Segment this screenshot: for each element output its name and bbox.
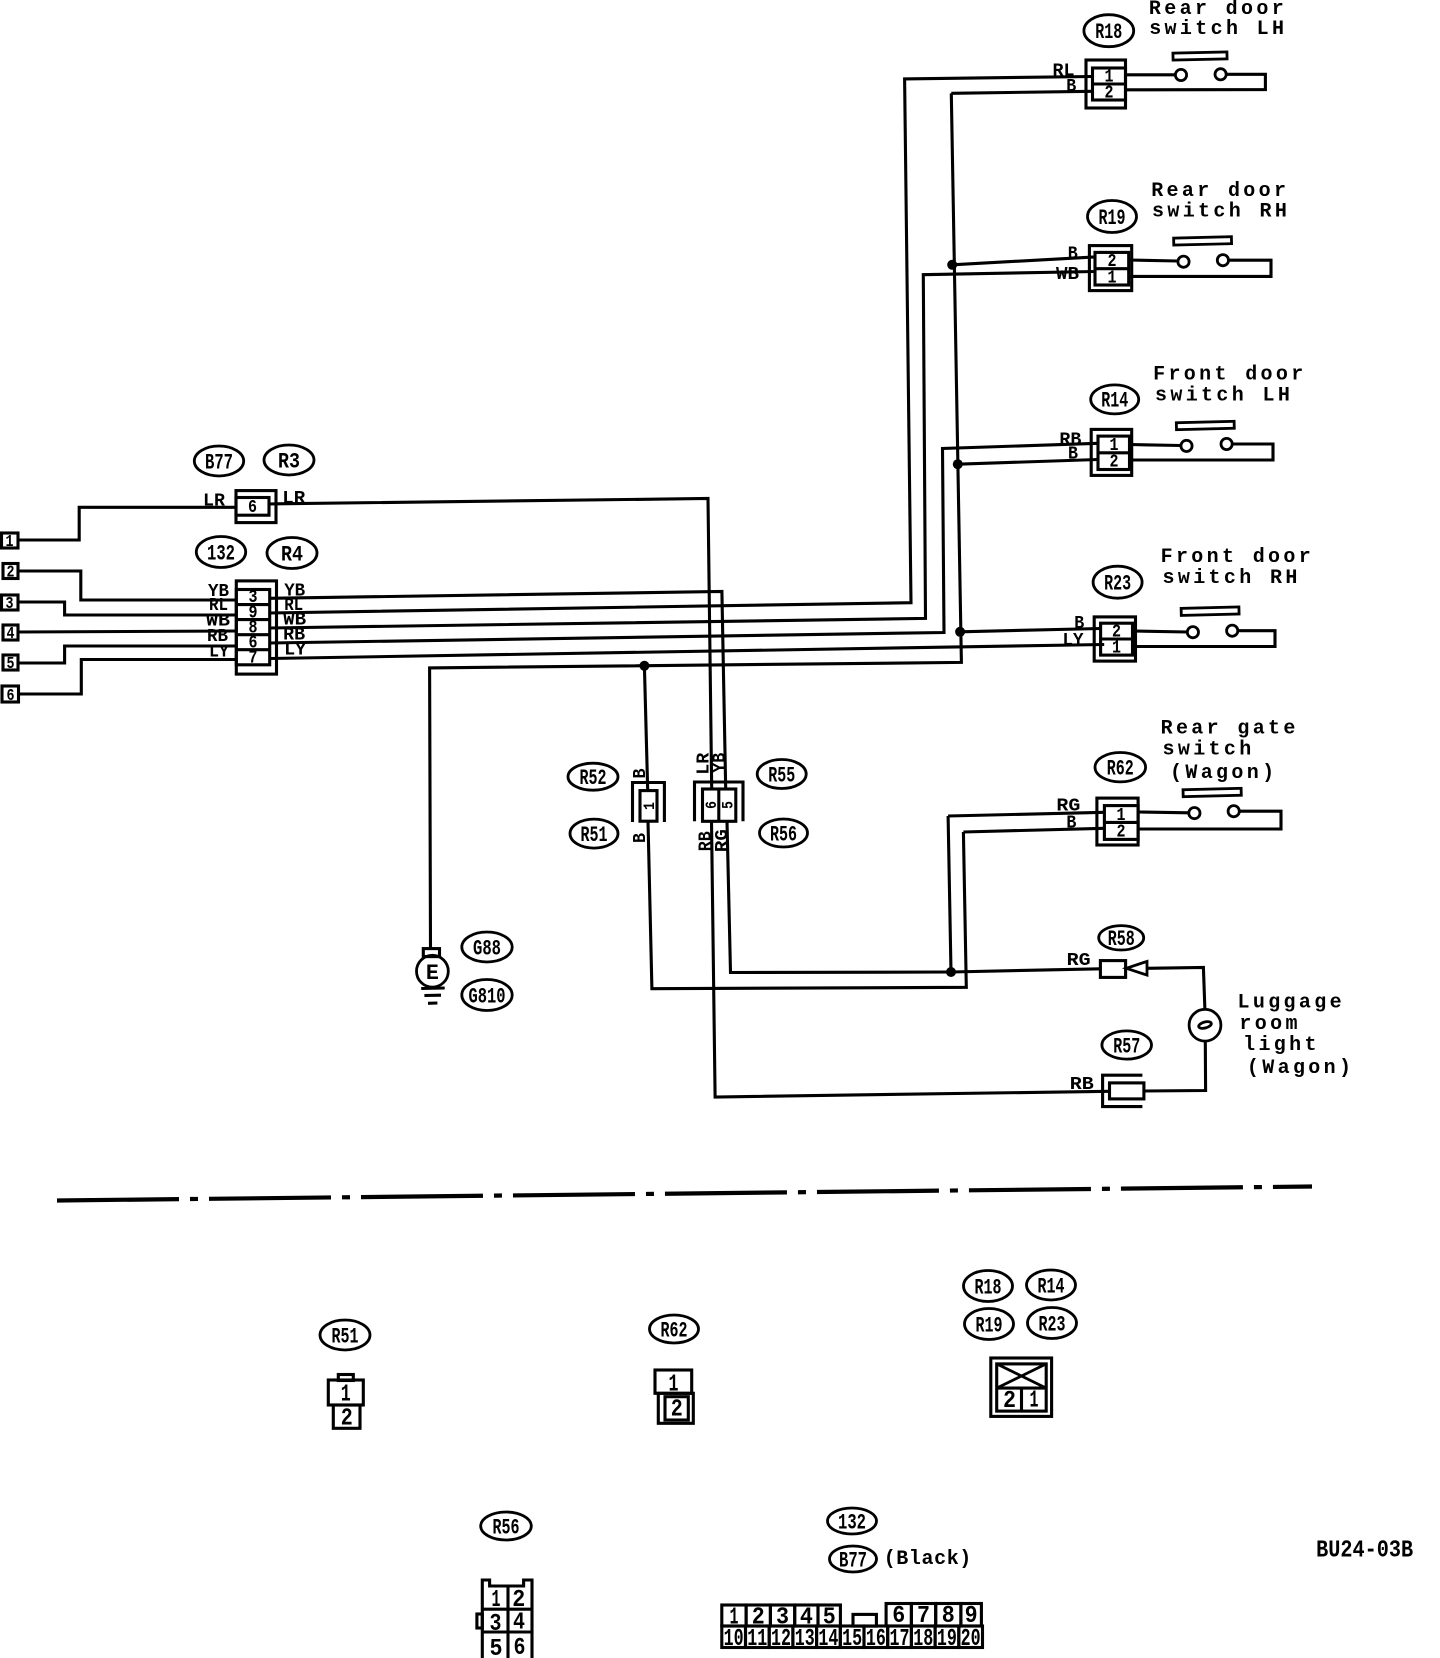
R56 view pin 3 <box>490 1611 502 1638</box>
svg-text:R56: R56 <box>770 822 797 847</box>
svg-text:LR: LR <box>282 489 305 509</box>
switch R62 contacts <box>1138 806 1281 829</box>
svg-text:6: 6 <box>248 498 257 518</box>
wire terminal2 to YB <box>18 571 236 600</box>
R14 pin 2 <box>1110 453 1119 473</box>
luggage room light bulb <box>1189 1009 1221 1041</box>
R62 pin 1 <box>1117 806 1126 826</box>
svg-text:5: 5 <box>720 801 738 809</box>
svg-text:room: room <box>1239 1013 1300 1036</box>
wire terminal3 to RL <box>18 602 236 615</box>
label WB right <box>283 611 306 631</box>
label LR left <box>203 492 225 512</box>
svg-text:light: light <box>1243 1034 1320 1057</box>
connector R18 oval <box>1084 15 1134 47</box>
svg-text:R23: R23 <box>1104 572 1131 597</box>
svg-text:R52: R52 <box>580 766 607 791</box>
pin 13 <box>795 1626 815 1653</box>
label B <box>1068 445 1078 465</box>
svg-text:6: 6 <box>514 1635 526 1658</box>
connector B77 oval bottom <box>830 1546 877 1573</box>
svg-text:LY: LY <box>209 643 229 663</box>
wire terminal4 to WB <box>18 631 236 632</box>
wire RB down to R57 <box>712 821 1110 1097</box>
pin 5 <box>823 1605 836 1632</box>
R56 view pin 1 <box>492 1587 501 1614</box>
pin 7 <box>917 1603 930 1630</box>
pin 19 <box>937 1626 957 1653</box>
svg-text:R18: R18 <box>1095 20 1122 45</box>
svg-text:WB: WB <box>1056 265 1079 285</box>
label LY right <box>284 641 306 661</box>
svg-text:6: 6 <box>7 687 15 706</box>
svg-text:3: 3 <box>6 595 14 614</box>
wire B gate drop <box>648 821 966 989</box>
R23 pin 2 <box>1112 622 1121 642</box>
pin 10 <box>724 1626 744 1653</box>
connector 132/B77 pinout view <box>722 1604 983 1648</box>
connector R62 oval bottom <box>650 1315 699 1343</box>
connector 132/R4 body <box>236 581 276 674</box>
svg-text:13: 13 <box>795 1626 815 1653</box>
wire LR run <box>269 499 712 790</box>
pin 15 <box>842 1626 862 1653</box>
wire terminal6 to LY <box>19 660 237 695</box>
svg-text:R19: R19 <box>1099 206 1126 231</box>
switch R23 connector body <box>1094 617 1135 661</box>
label LY <box>1063 631 1084 651</box>
svg-text:B77: B77 <box>205 450 233 475</box>
R51 view pin 2 <box>341 1406 353 1433</box>
svg-text:7: 7 <box>249 648 258 668</box>
pin 1 <box>730 1605 739 1632</box>
connector R51 oval bottom <box>320 1320 370 1350</box>
rear door switch RH label <box>1151 180 1290 224</box>
label B <box>1066 814 1076 834</box>
svg-text:R58: R58 <box>1108 927 1135 952</box>
svg-text:R51: R51 <box>581 823 608 848</box>
svg-text:(Wagon): (Wagon) <box>1247 1057 1354 1080</box>
svg-text:(Black): (Black) <box>884 1548 972 1571</box>
connector B77 oval <box>194 446 243 476</box>
pin 2 <box>752 1605 765 1632</box>
label WB <box>1056 265 1079 285</box>
luggage room light label <box>1238 992 1355 1081</box>
svg-text:Rear gate: Rear gate <box>1161 718 1299 741</box>
wire RB run <box>270 443 1098 643</box>
wire terminal5 to RB <box>18 646 236 663</box>
svg-text:B: B <box>631 833 651 843</box>
wire B to R19 <box>952 257 1095 265</box>
label BU24-03B <box>1316 1538 1413 1565</box>
R18 pin 2 <box>1105 84 1114 104</box>
label RG at R58 <box>1067 951 1091 971</box>
svg-text:10: 10 <box>724 1626 744 1653</box>
junction B at R52 drop <box>639 661 649 671</box>
svg-text:Front door: Front door <box>1161 546 1315 569</box>
svg-text:1: 1 <box>341 1382 351 1409</box>
svg-text:switch RH: switch RH <box>1163 567 1301 590</box>
switch R19 actuator bar <box>1174 237 1232 245</box>
svg-text:LY: LY <box>1063 631 1084 651</box>
label RL <box>1053 62 1075 82</box>
R19 pin 1 <box>1108 268 1117 288</box>
wire B bus <box>430 93 962 948</box>
svg-text:R18: R18 <box>975 1275 1002 1300</box>
svg-text:G810: G810 <box>469 984 506 1009</box>
svg-text:6: 6 <box>703 801 721 809</box>
connector R62 pinout view <box>655 1370 693 1423</box>
svg-text:4: 4 <box>7 625 15 644</box>
junction B bus at R23 <box>955 627 965 637</box>
wire B to R23 <box>960 629 1101 632</box>
R62 view pin 1 <box>669 1372 679 1399</box>
svg-text:RB: RB <box>1070 1075 1094 1095</box>
label YB left <box>208 582 229 602</box>
connector R23 oval <box>1093 566 1142 598</box>
svg-text:132: 132 <box>838 1510 866 1535</box>
pin 8 <box>942 1603 955 1630</box>
door switch view pin 2 <box>1003 1388 1016 1415</box>
svg-text:switch LH: switch LH <box>1155 385 1293 408</box>
svg-text:R14: R14 <box>1038 1274 1065 1299</box>
svg-text:19: 19 <box>937 1626 957 1653</box>
R55 pin 5 <box>720 801 738 809</box>
switch R62 connector body <box>1097 798 1138 845</box>
switch R62 actuator bar <box>1183 788 1241 796</box>
connector R56 oval bottom <box>481 1512 532 1540</box>
R56 view pin 2 <box>512 1587 525 1614</box>
wire junction to R58 <box>951 969 1100 972</box>
terminal 3 <box>2 595 19 614</box>
label RB right <box>283 626 305 646</box>
svg-text:14: 14 <box>818 1626 838 1653</box>
switch R18 actuator bar <box>1173 52 1227 60</box>
svg-text:12: 12 <box>771 1626 791 1653</box>
svg-text:3: 3 <box>490 1611 502 1638</box>
ground G88 oval <box>462 932 512 962</box>
R14 pin 1 <box>1110 436 1119 456</box>
svg-text:switch LH: switch LH <box>1149 18 1287 41</box>
svg-text:R3: R3 <box>278 449 300 474</box>
terminal 1 <box>2 533 19 552</box>
svg-text:132: 132 <box>207 541 235 566</box>
label RB left <box>207 627 228 647</box>
wire lamp to R57 <box>1144 1041 1206 1091</box>
connector R52 oval <box>568 763 618 791</box>
rear door switch LH label <box>1149 0 1287 41</box>
connector R14 oval <box>1091 385 1139 414</box>
R23 pin 1 <box>1112 639 1121 659</box>
connector R55/R56 body <box>695 782 744 821</box>
svg-text:Rear door: Rear door <box>1151 180 1289 203</box>
connector R4 oval <box>267 538 317 569</box>
front door switch RH label <box>1161 546 1315 590</box>
svg-text:2: 2 <box>1110 453 1119 473</box>
svg-text:LR: LR <box>203 492 225 512</box>
switch R23 contacts <box>1133 625 1276 646</box>
pin 9 <box>249 603 258 623</box>
wire RG drop <box>948 816 951 972</box>
wire RL run <box>270 77 1093 614</box>
svg-text:B: B <box>631 768 651 778</box>
svg-text:R19: R19 <box>976 1313 1003 1338</box>
switch R14 contacts <box>1130 438 1274 460</box>
svg-text:B77: B77 <box>839 1548 867 1573</box>
svg-text:4: 4 <box>513 1610 525 1637</box>
wire YB run <box>270 592 726 790</box>
pin 7 <box>249 648 258 668</box>
svg-text:2: 2 <box>1117 823 1126 843</box>
svg-text:Luggage: Luggage <box>1238 992 1345 1015</box>
svg-text:20: 20 <box>961 1626 981 1653</box>
wire B to R62 <box>963 828 1104 832</box>
label B below R52 <box>631 833 651 843</box>
terminal 2 <box>3 564 18 583</box>
switch R18 connector body <box>1086 60 1126 108</box>
connector R51 pinout view <box>328 1375 363 1429</box>
connector 132 oval <box>196 537 245 568</box>
svg-text:R51: R51 <box>332 1324 359 1349</box>
label RG below <box>713 829 733 852</box>
svg-text:1: 1 <box>669 1372 679 1399</box>
label RL right <box>284 596 303 616</box>
pin 17 <box>890 1626 910 1653</box>
label WB left <box>206 612 230 632</box>
junction RG at R58 <box>946 967 956 977</box>
switch R23 actuator bar <box>1181 607 1239 615</box>
R62 pin 2 <box>1117 823 1126 843</box>
svg-text:1: 1 <box>1108 268 1117 288</box>
wire R58 to lamp <box>1147 968 1205 1010</box>
svg-text:RG: RG <box>1067 951 1091 971</box>
switch R14 connector body <box>1091 429 1132 475</box>
wire B to R14 <box>958 460 1098 465</box>
R55 pin 6 <box>703 801 721 809</box>
connector R14 oval bottom <box>1027 1270 1076 1300</box>
svg-text:B: B <box>1068 245 1078 265</box>
connector R57 oval <box>1102 1031 1152 1059</box>
R62 view pin 2 <box>671 1397 683 1424</box>
pin 6 <box>892 1603 905 1630</box>
connector R55 oval <box>757 760 806 789</box>
label YB above <box>710 753 730 773</box>
svg-text:2: 2 <box>671 1397 683 1424</box>
label B above R52 <box>631 768 651 778</box>
connector R58 oval <box>1099 926 1144 953</box>
connector R19 oval <box>1088 201 1137 233</box>
svg-text:R23: R23 <box>1039 1312 1066 1337</box>
svg-text:switch: switch <box>1163 739 1255 762</box>
R19 pin 2 <box>1108 252 1117 272</box>
label RL left <box>209 596 228 616</box>
svg-text:15: 15 <box>842 1626 862 1653</box>
pin 11 <box>747 1626 767 1653</box>
terminal 6 <box>2 686 19 706</box>
label LR right <box>282 489 305 509</box>
pin 12 <box>771 1626 791 1653</box>
R52 pin 1 <box>641 802 659 810</box>
connector R23 oval bottom <box>1028 1308 1077 1339</box>
svg-text:BU24-03B: BU24-03B <box>1316 1538 1413 1565</box>
connector R58 inline <box>1100 961 1147 978</box>
label RB below <box>697 831 717 851</box>
label B <box>1074 614 1084 634</box>
label YB right <box>284 582 305 602</box>
R56 view pin 4 <box>513 1610 525 1637</box>
switch R19 connector body <box>1089 246 1131 291</box>
junction B bus at R19 <box>947 260 957 270</box>
svg-text:1: 1 <box>1112 639 1121 659</box>
connector B77/R3 pin 6 <box>236 491 276 523</box>
wire RG down to junction <box>727 821 951 972</box>
pin 8 <box>249 618 258 638</box>
separator dash-dot line <box>57 1187 1312 1201</box>
switch R14 actuator bar <box>1176 421 1234 429</box>
label LY left <box>209 643 229 663</box>
door switch view pin 1 <box>1030 1388 1039 1415</box>
connector R19 oval bottom <box>965 1309 1014 1340</box>
svg-text:G88: G88 <box>473 936 501 961</box>
rear gate switch label <box>1161 718 1299 786</box>
pin 20 <box>961 1626 981 1653</box>
svg-text:18: 18 <box>913 1626 933 1653</box>
svg-text:2: 2 <box>341 1406 353 1433</box>
wire B drop to R52 <box>644 666 647 791</box>
svg-text:1: 1 <box>641 802 659 810</box>
svg-text:R62: R62 <box>661 1318 688 1343</box>
svg-text:YB: YB <box>710 753 730 773</box>
svg-text:R57: R57 <box>1113 1034 1140 1059</box>
label (Black) <box>884 1548 972 1571</box>
pin 9 <box>965 1603 978 1630</box>
R56 view pin 6 <box>514 1635 526 1658</box>
svg-text:1: 1 <box>492 1587 501 1614</box>
svg-text:1: 1 <box>1030 1388 1039 1415</box>
svg-text:11: 11 <box>747 1626 767 1653</box>
svg-text:R4: R4 <box>281 542 303 567</box>
connector R56 pinout view <box>477 1580 532 1658</box>
switch R18 contacts <box>1126 69 1266 90</box>
pin 4 <box>800 1605 813 1632</box>
pin 6 <box>249 633 258 653</box>
ground G810 oval <box>462 980 512 1011</box>
label B <box>1066 77 1076 97</box>
R51 view pin 1 <box>341 1382 351 1409</box>
wire LY run <box>270 645 1104 659</box>
label RB <box>1059 431 1081 451</box>
svg-text:2: 2 <box>1003 1388 1016 1415</box>
pin 14 <box>818 1626 838 1653</box>
label B <box>1068 245 1078 265</box>
terminal 4 <box>3 625 18 644</box>
svg-text:2: 2 <box>1105 84 1114 104</box>
svg-text:R62: R62 <box>1107 757 1134 782</box>
svg-text:16: 16 <box>866 1626 886 1653</box>
wire B to R18 <box>951 91 1092 93</box>
svg-text:B: B <box>1066 77 1076 97</box>
wire RG to R62 <box>948 812 1104 816</box>
svg-text:(Wagon): (Wagon) <box>1170 762 1277 785</box>
label LR above <box>695 753 715 775</box>
front door switch LH label <box>1153 364 1307 408</box>
pin 16 <box>866 1626 886 1653</box>
door switch connector pinout view <box>991 1358 1052 1416</box>
svg-text:R56: R56 <box>493 1515 520 1540</box>
terminal 5 <box>3 655 18 674</box>
svg-text:2: 2 <box>7 564 15 583</box>
connector R18 oval bottom <box>964 1271 1013 1302</box>
R18 pin 1 <box>1105 68 1114 88</box>
connector R3 oval <box>264 445 314 475</box>
ground E symbol <box>417 949 449 1004</box>
connector R51 oval <box>570 819 618 848</box>
connector R52/R51 body <box>633 783 665 823</box>
pin 3 <box>249 588 258 608</box>
wire terminal1 to LR <box>18 507 236 540</box>
connector R56 oval <box>760 819 808 847</box>
connector R57 inline <box>1103 1075 1144 1106</box>
svg-text:R14: R14 <box>1101 389 1128 414</box>
label RB at R57 <box>1070 1075 1094 1095</box>
svg-text:Front door: Front door <box>1153 364 1307 387</box>
svg-text:5: 5 <box>7 655 15 674</box>
junction B bus at R14 <box>953 459 963 469</box>
svg-text:1: 1 <box>6 533 14 552</box>
svg-text:switch RH: switch RH <box>1152 201 1290 224</box>
svg-text:RG: RG <box>713 829 733 852</box>
label RG <box>1056 797 1080 817</box>
wire WB run <box>270 272 1095 629</box>
pin 18 <box>913 1626 933 1653</box>
svg-text:17: 17 <box>890 1626 910 1653</box>
R56 view pin 5 <box>490 1636 503 1658</box>
connector 132 oval bottom <box>828 1508 877 1535</box>
svg-text:E: E <box>426 961 439 986</box>
connector R62 oval <box>1095 753 1146 782</box>
switch R19 contacts <box>1129 255 1271 277</box>
svg-text:5: 5 <box>490 1636 503 1658</box>
svg-text:R55: R55 <box>768 763 795 788</box>
pin 3 <box>776 1605 789 1632</box>
